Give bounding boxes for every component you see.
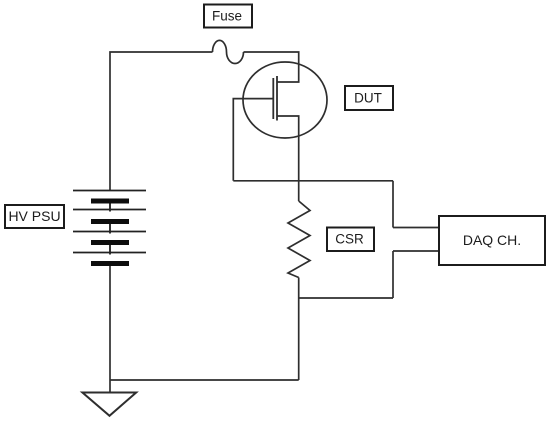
battery HV PSU plate 2 (thin +) bbox=[73, 209, 146, 211]
battery HV PSU plate 2 (thick -) bbox=[91, 219, 129, 224]
svg-text:HV PSU: HV PSU bbox=[8, 208, 60, 224]
battery HV PSU plate 4 (thick -) bbox=[91, 261, 129, 266]
wire: gate down and left to mid rail bbox=[233, 99, 273, 181]
label box "DUT" bbox=[345, 86, 393, 110]
svg-text:Fuse: Fuse bbox=[212, 9, 242, 24]
battery HV PSU plate 1 (thick -) bbox=[91, 199, 129, 204]
wire: HV PSU positive terminal up and along top bbox=[110, 52, 213, 191]
transistor DUT gate bar bbox=[272, 78, 274, 119]
label box "DAQ CH." (DAQ channel) bbox=[439, 216, 545, 265]
svg-text:CSR: CSR bbox=[335, 232, 364, 247]
wire: DAQ CH. bottom lead bbox=[393, 250, 439, 252]
battery HV PSU inter-cell stub 3 bbox=[109, 245, 111, 255]
svg-text:DAQ CH.: DAQ CH. bbox=[463, 232, 521, 248]
wire: CSR bottom horizontal bbox=[299, 297, 393, 299]
battery HV PSU plate 1 (thin +) bbox=[73, 190, 146, 192]
wire: right trunk lower vertical bbox=[392, 251, 394, 298]
battery HV PSU plate 3 (thick -) bbox=[91, 240, 129, 245]
wire: DAQ CH. top lead bbox=[393, 227, 439, 229]
resistor CSR zigzag bbox=[288, 201, 310, 278]
battery HV PSU plate 4 (thin +) bbox=[73, 252, 146, 254]
wire: battery negative terminal down to ground bbox=[109, 266, 111, 393]
transistor DUT source lead bbox=[277, 116, 299, 201]
label box "HV PSU" bbox=[5, 205, 64, 228]
wire: right trunk upper vertical bbox=[392, 181, 394, 228]
transistor DUT envelope circle bbox=[243, 62, 327, 138]
label box "CSR" bbox=[327, 228, 374, 252]
svg-text:DUT: DUT bbox=[354, 91, 382, 106]
battery HV PSU inter-cell stub 2 bbox=[109, 224, 111, 234]
ground symbol (hollow triangle) bbox=[82, 393, 136, 416]
fuse F1 (S-curve symbol) bbox=[213, 40, 244, 63]
battery HV PSU inter-cell stub 1 bbox=[109, 204, 111, 212]
battery HV PSU plate 3 (thin +) bbox=[73, 231, 146, 233]
transistor DUT channel bar bbox=[276, 76, 278, 121]
label box "Fuse" bbox=[204, 5, 252, 28]
wire: resistor bottom to ground rail bbox=[298, 278, 300, 381]
wire: fuse to DUT drain bbox=[244, 52, 299, 82]
wire: bottom ground rail bbox=[110, 379, 299, 381]
wire: mid rail to right trunk bbox=[233, 180, 393, 182]
